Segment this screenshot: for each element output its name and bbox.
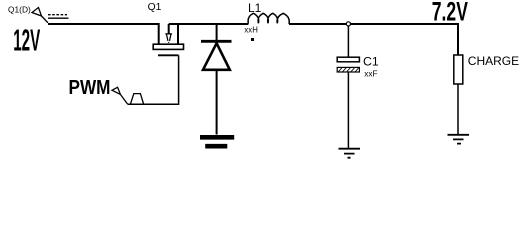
diode D1 cathode bar (201, 40, 232, 43)
diode D1 triangle (203, 43, 230, 70)
svg-text:CHARGE: CHARGE (468, 54, 519, 68)
node PWM probe arrow (112, 87, 128, 104)
svg-text:Q1(D): Q1(D) (8, 5, 31, 15)
wire resistor to ground (457, 84, 459, 134)
svg-text:PWM: PWM (69, 76, 111, 99)
ground (C1, 3-bar) (339, 149, 361, 158)
inductor L1 coil (248, 13, 289, 24)
node Q1(D) probe arrow (32, 8, 48, 23)
diode D1 stub from switch node (216, 24, 218, 40)
node Q1(D) probe solid line (48, 17, 69, 19)
svg-text:xxH: xxH (244, 26, 257, 35)
wire C1 to ground (347, 73, 349, 149)
transistor Q1 gate bar (158, 54, 179, 56)
svg-text:12V: 12V (13, 24, 40, 58)
resistor CHARGE body (454, 55, 463, 84)
inductor L1 dot marker (251, 38, 254, 41)
wire switch node (Q1 source to L1) (169, 23, 249, 25)
node Q1(D) probe dashed line (48, 14, 67, 16)
svg-text:C1: C1 (363, 54, 379, 68)
junction node at C1 (346, 22, 350, 26)
svg-text:xxF: xxF (364, 70, 377, 79)
svg-text:Q1: Q1 (148, 2, 162, 13)
capacitor C1 top plate (337, 57, 359, 62)
transistor Q1 source stub (177, 24, 179, 44)
svg-text:7.2V: 7.2V (432, 0, 469, 27)
svg-text:L1: L1 (248, 1, 262, 15)
transistor Q1 channel plate (153, 44, 183, 49)
wire junction to C1 (347, 26, 349, 57)
ground (diode, heavy 2-bar) (200, 137, 234, 146)
PWM pulse waveform (131, 94, 144, 104)
wire main top left (12V to Q1 drain) (48, 24, 159, 44)
transistor Q1 body arrow head (165, 34, 172, 43)
transistor Q1 body arrow stub (168, 24, 170, 34)
capacitor C1 bottom plate (hatched) (337, 67, 359, 72)
wire Q1 gate to PWM (128, 55, 179, 104)
wire L1 to output corner (289, 24, 458, 55)
ground (CHARGE, 3-bar) (448, 135, 470, 144)
wire diode anode to ground (216, 71, 218, 135)
